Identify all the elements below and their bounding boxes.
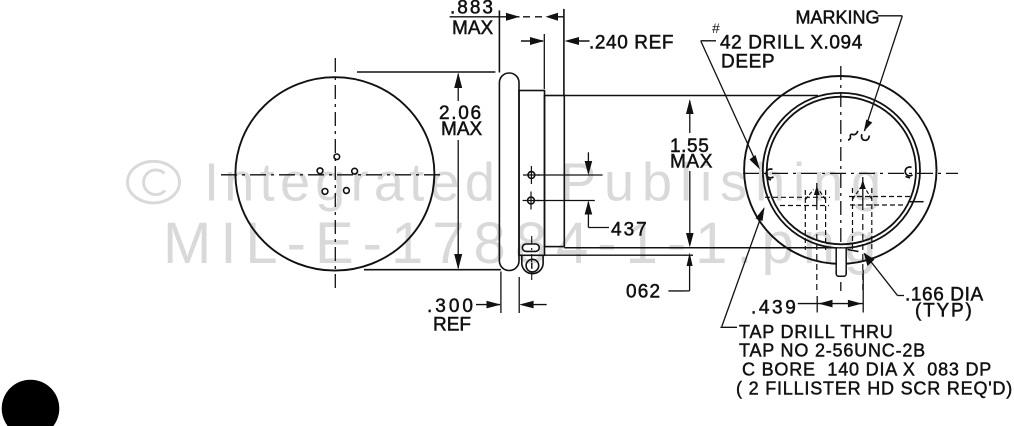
leader 42drill diagonal — [701, 42, 759, 168]
dim 437 upper segment — [587, 152, 589, 173]
right cluster center dashed down — [862, 204, 864, 294]
screw centerline vertical — [531, 236, 533, 283]
ext line .300 right — [518, 277, 520, 313]
dim .883 line left solid — [450, 16, 520, 18]
svg-text:MAX: MAX — [452, 18, 494, 39]
svg-text:.439: .439 — [751, 298, 798, 319]
left cluster center vertical — [816, 183, 818, 204]
dim .439 line — [798, 303, 863, 305]
top tangent line — [357, 71, 495, 73]
dim 437 connector — [588, 227, 609, 229]
left cluster chamfer left — [806, 190, 814, 200]
left cluster center dashed down — [816, 204, 818, 294]
leader from upper hole — [537, 174, 603, 176]
svg-text:DEEP: DEEP — [721, 52, 775, 73]
svg-text:C BORE 140 DIA X 083 DP: C BORE 140 DIA X 083 DP — [742, 360, 992, 380]
dim 062 vertical — [689, 263, 691, 291]
right view bezel outer circle — [763, 93, 920, 248]
left view hole top center — [334, 154, 340, 160]
leader tap dash — [720, 326, 737, 328]
dim 2.06 arrow up — [454, 73, 462, 89]
right cluster vertical left dashed — [852, 188, 854, 250]
right view outer circle — [744, 76, 936, 264]
left cluster chamfer right — [819, 190, 826, 200]
svg-text:TAP DRILL THRU: TAP DRILL THRU — [739, 322, 894, 342]
left view hole right upper — [352, 168, 358, 174]
marking hook — [848, 131, 869, 141]
dim 2.06 line upper — [457, 74, 459, 101]
left cluster vertical right dashed — [825, 190, 827, 250]
dim .300 left arrow — [487, 301, 501, 309]
ext line body right top — [563, 9, 565, 95]
screw hole upper side view — [528, 172, 535, 179]
screw hole upper ticks — [530, 166, 532, 184]
leader 42drill arrow — [750, 155, 761, 170]
dim 437 lower segment — [587, 202, 589, 228]
svg-text:MIL-E-17884-1-1.png: MIL-E-17884-1-1.png — [163, 211, 885, 276]
screw head arch — [522, 256, 543, 274]
leader tap arrow — [756, 207, 765, 221]
left view vertical centerline — [334, 58, 336, 292]
dim .300 right arrow — [519, 301, 533, 309]
right cluster up arrow — [860, 180, 866, 190]
right view horizontal centerline — [743, 172, 958, 174]
bottom tab bottom — [836, 271, 846, 276]
right cluster horizontal dashed 2 — [850, 204, 903, 206]
dim .240 left piece — [521, 40, 543, 42]
stem rect — [519, 91, 545, 256]
right cluster vertical right dashed — [871, 188, 873, 250]
dim 1.55 upper segment — [689, 101, 691, 133]
svg-text:MAX: MAX — [441, 119, 483, 140]
corner black blob — [2, 380, 60, 426]
svg-text:MAX: MAX — [670, 152, 713, 173]
left view hole left lower — [322, 189, 328, 195]
svg-text:.240 REF: .240 REF — [589, 33, 674, 54]
right bezel hook — [905, 167, 912, 178]
leader from lower hole — [537, 200, 595, 202]
leader .166 arrow — [864, 253, 875, 267]
left view body circle — [235, 77, 434, 270]
right cluster chamfer left — [853, 188, 861, 200]
dim .883 line middle dashed — [523, 16, 544, 18]
svg-text:Publishing: Publishing — [560, 152, 889, 212]
dim .240 right arrow — [565, 37, 580, 45]
svg-text:.883: .883 — [450, 0, 495, 19]
screw hole lower side view — [528, 197, 535, 204]
dim 062 up arrow — [687, 253, 693, 267]
dim .883 arrow right blob — [506, 13, 520, 21]
ext line stem right — [543, 34, 545, 89]
left view hole right lower — [344, 188, 350, 194]
dim .240 right tail — [573, 40, 590, 42]
dim 062 dash — [668, 290, 684, 292]
dim 062 elbow — [685, 290, 690, 292]
bottom tab white interior — [836, 249, 846, 277]
left cluster up arrow — [814, 186, 820, 196]
svg-text:42 DRILL X.094: 42 DRILL X.094 — [720, 33, 863, 54]
left cluster vertical left dashed — [804, 190, 806, 250]
dim 1.55 up arrow — [686, 99, 694, 114]
dim 437 down arrow — [585, 161, 593, 175]
dim 1.55 lower segment — [689, 171, 691, 245]
dim 1.55 down arrow — [686, 233, 694, 247]
dim .439 ext right — [862, 270, 864, 313]
right view vertical centerline — [840, 66, 842, 291]
screw hole lower ticks — [530, 192, 532, 210]
left view horizontal centerline — [221, 174, 442, 176]
leader 42drill bracket — [701, 40, 717, 42]
dim 2.06 line lower — [457, 140, 459, 268]
right cluster horizontal dashed 1 — [849, 196, 911, 198]
dim .883 line right solid — [556, 16, 564, 18]
left view hole left upper — [317, 168, 323, 174]
leader marking dash — [878, 15, 903, 17]
leader tap diagonal — [722, 209, 764, 327]
dim .240 left arrow — [530, 37, 544, 45]
slot stadium — [522, 244, 539, 251]
bottom tab right edge — [845, 249, 847, 274]
leader .166 diagonal — [865, 254, 898, 296]
right cluster chamfer right — [865, 188, 872, 200]
svg-text:#: # — [712, 20, 720, 36]
watermark copyright symbol — [128, 161, 180, 203]
dim .439 ext left — [816, 296, 818, 313]
dim 437 up arrow — [585, 201, 593, 215]
svg-text:REF: REF — [433, 315, 471, 336]
bottom tab left edge — [835, 249, 837, 274]
leader marking diagonal — [865, 16, 903, 131]
right cluster stray dash — [910, 201, 924, 203]
screw slot line — [531, 263, 533, 269]
dim .439 left arrow — [819, 300, 833, 308]
line B stem bottom extension — [545, 254, 693, 256]
left cluster horizontal dashed 2 — [780, 205, 829, 207]
leader .166 tail — [898, 295, 905, 297]
svg-text:Integrated: Integrated — [204, 152, 500, 212]
dim .300 right tail — [527, 304, 547, 306]
body top extension line — [564, 95, 818, 97]
dim .883 arrow left blob — [546, 13, 559, 21]
line A body bottom extension — [564, 247, 835, 249]
leader marking arrow — [864, 120, 873, 132]
dim .300 left piece — [476, 304, 500, 306]
svg-text:062: 062 — [626, 282, 661, 303]
ext line flange left top — [498, 10, 500, 72]
dim 2.06 arrow down — [454, 254, 462, 270]
svg-text:( 2 FILLISTER HD SCR REQ'D): ( 2 FILLISTER HD SCR REQ'D) — [736, 379, 1013, 399]
dim .439 right arrow — [848, 300, 862, 308]
svg-text:437: 437 — [611, 220, 649, 241]
flange rounded profile — [499, 73, 519, 271]
left bezel hook — [766, 169, 773, 180]
svg-text:(TYP): (TYP) — [915, 301, 974, 322]
right cluster center vertical — [862, 177, 864, 204]
svg-text:TAP NO 2-56UNC-2B: TAP NO 2-56UNC-2B — [739, 341, 926, 361]
right view bezel inner circle — [767, 97, 916, 245]
screw head circle — [526, 259, 539, 272]
body rect — [545, 96, 565, 247]
ext line .300 left — [500, 272, 502, 314]
line A right piece — [848, 250, 859, 252]
svg-text:MARKING: MARKING — [796, 8, 880, 28]
left cluster horizontal dashed 1 — [765, 196, 830, 198]
bottom tangent line — [364, 269, 501, 271]
